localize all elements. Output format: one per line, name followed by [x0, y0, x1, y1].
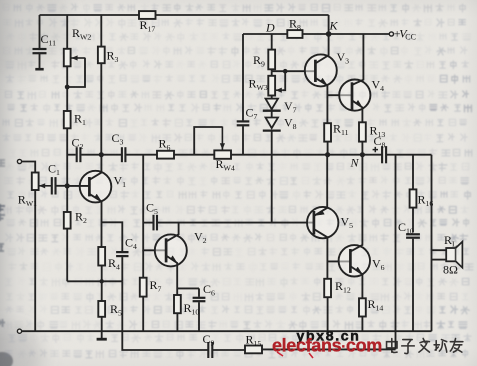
- wire diode chain down to driver line: [271, 131, 273, 223]
- wire: rail corner down to node K: [328, 15, 330, 34]
- node K: [326, 31, 332, 37]
- wire: top supply rail: [40, 14, 329, 16]
- RW1 wiper arrow: [39, 185, 52, 187]
- V5 collector down: [315, 229, 328, 278]
- V4 collector from +Vcc: [353, 34, 364, 85]
- resistor R4: [98, 247, 105, 266]
- main mid line (N line): [101, 154, 121, 156]
- junction RW2 wiper tie: [65, 85, 70, 90]
- capacitor C8: [381, 146, 383, 163]
- resistor R12: [324, 279, 331, 297]
- junction R11/V5 emitter at N line: [325, 152, 330, 157]
- input ground terminal: [17, 329, 21, 333]
- resistor R15: [245, 346, 262, 354]
- watermark 电子发烧友 hanzi: [387, 339, 398, 353]
- resistor R7: [142, 250, 144, 277]
- capacitor C2: [67, 154, 76, 156]
- resistor R2: [66, 186, 68, 212]
- RW4 wiper arrow and tie: [221, 127, 223, 150]
- wire riser from N line down to feedback line: [395, 155, 397, 350]
- wire feedback down to C9 line: [122, 281, 207, 350]
- resistor R14: [359, 298, 366, 316]
- capacitor C1: [51, 177, 53, 194]
- wire RW4 to C8: [231, 154, 382, 156]
- resistor R9: [271, 34, 273, 50]
- V6 base bar: [349, 249, 352, 273]
- wire V5 collector to V6 base: [327, 260, 350, 262]
- capacitor C3: [121, 147, 123, 162]
- V2 emitter: [167, 256, 178, 295]
- junction V3 base node: [283, 69, 288, 74]
- input terminal: [17, 159, 21, 163]
- potentiometer RW1: [32, 173, 39, 191]
- resistor R5: [98, 301, 105, 317]
- wire feedback node horizontal: [67, 280, 122, 282]
- resistor R6: [157, 151, 174, 159]
- V1 emitter with arrow: [90, 194, 102, 247]
- V2 collector: [167, 223, 179, 242]
- V1 base lead: [67, 185, 89, 187]
- V5 emitter (to N) with inward arrow: [315, 155, 328, 216]
- resistor R11: [324, 123, 331, 141]
- V4 base bar: [351, 82, 354, 110]
- resistor R3: [100, 15, 102, 47]
- V6 emitter: [351, 267, 362, 299]
- capacitor C9: [207, 342, 209, 358]
- V2 base bar: [165, 238, 168, 262]
- branch from N-line down to V2 base node: [143, 155, 166, 251]
- RW3 wiper arrow: [276, 89, 283, 91]
- potentiometer RW4: [214, 150, 231, 158]
- junction V1 collector node: [99, 152, 104, 157]
- diode V7: [271, 96, 273, 99]
- V3 emitter: [316, 78, 327, 123]
- +Vcc supply terminal: [389, 32, 393, 36]
- junction V1 base node: [65, 183, 70, 188]
- V3 base bar: [314, 60, 317, 82]
- capacitor C11: [39, 15, 41, 48]
- RW2 wiper arrow: [71, 57, 85, 59]
- wire input to RW1: [22, 162, 36, 173]
- ground bar under C11: [35, 68, 43, 71]
- capacitor C5: [152, 215, 154, 231]
- wire V2 emitter branch to C6: [177, 287, 199, 289]
- wire R15 to x=395 riser: [262, 348, 396, 350]
- diode V8: [266, 118, 279, 129]
- V3 collector to K: [316, 34, 329, 63]
- C8 plus sign: [373, 147, 378, 152]
- V4 emitter: [353, 101, 363, 123]
- potentiometer RW2: [66, 15, 68, 49]
- wire V1 emitter branch to C4: [102, 222, 123, 251]
- potentiometer RW3: [271, 71, 273, 76]
- wire R9 to V3 base: [272, 70, 316, 72]
- junction R13/V6 collector at N line: [360, 152, 365, 157]
- wire: +Vcc line from D to supply terminal: [243, 33, 389, 35]
- wire speaker branch: [431, 155, 433, 332]
- ground/common bottom rail: [22, 330, 432, 332]
- V6 collector up to N: [351, 155, 362, 252]
- V1 collector: [90, 155, 102, 180]
- V1 base bar: [88, 177, 91, 196]
- wire V3 emitter to V4 base: [327, 94, 352, 96]
- resistor R8: [287, 30, 302, 38]
- resistor R10: [174, 295, 181, 313]
- wire C8 to speaker branch: [387, 154, 432, 156]
- capacitor C6: [198, 288, 200, 296]
- capacitor C4: [116, 251, 128, 253]
- speaker RL: [432, 249, 447, 251]
- wire V2 collector / V5 base driver line: [157, 222, 314, 224]
- capacitor C10: [406, 233, 420, 235]
- resistor R13: [359, 122, 366, 141]
- resistor R1: [64, 111, 71, 128]
- resistor R17: [139, 11, 156, 19]
- V5 base bar: [313, 211, 316, 235]
- ground stub below rail: [101, 331, 103, 338]
- junction feedback node: [100, 279, 104, 283]
- resistor R16: [412, 155, 414, 190]
- capacitor C7: [242, 34, 244, 120]
